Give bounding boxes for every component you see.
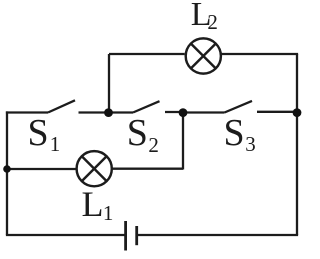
- wire lamp L1 to connector: [112, 168, 184, 170]
- switch S2 lever: [133, 101, 160, 112]
- switch S1 lever: [48, 100, 75, 112]
- node B junction dot: [179, 108, 188, 117]
- lamp L1: [77, 151, 112, 186]
- label S1: [28, 114, 49, 152]
- label S3: [224, 114, 245, 152]
- wire S1 contact to node A: [79, 111, 134, 113]
- wire L1 connector vertical: [182, 113, 184, 170]
- node A junction dot: [104, 108, 113, 117]
- wire right vertical: [296, 54, 298, 235]
- wire top right (lamp L2 to right corner): [222, 53, 299, 55]
- switch S3 lever: [225, 101, 253, 113]
- node C junction dot (right): [293, 108, 302, 117]
- label L2: [191, 0, 212, 32]
- label S2: [127, 114, 148, 152]
- wire left vertical: [6, 111, 8, 235]
- wire bottom right (battery to right): [138, 234, 298, 236]
- battery long plate (positive): [124, 221, 127, 251]
- lamp L2: [186, 38, 221, 73]
- wire L1 row: left node to lamp: [7, 168, 77, 170]
- wire S3 contact to right vertical: [257, 111, 297, 113]
- node D junction dot (left, L1 branch): [3, 165, 11, 173]
- wire S2 contact to node B: [165, 111, 183, 113]
- battery short plate (negative): [135, 226, 138, 245]
- wire bottom left (to battery): [6, 234, 125, 236]
- wire L2 branch vertical: [108, 54, 110, 113]
- wire switch row: left to S1 pivot: [6, 111, 48, 113]
- wire node B to S3 pivot: [183, 111, 225, 113]
- wire top left (left corner to lamp L2): [109, 53, 185, 55]
- label L1: [82, 186, 104, 222]
